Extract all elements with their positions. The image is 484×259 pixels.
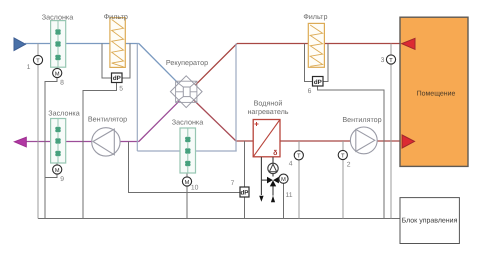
- svg-text:2: 2: [347, 162, 351, 169]
- svg-text:Заслонка: Заслонка: [172, 118, 203, 127]
- svg-text:6: 6: [308, 88, 312, 95]
- svg-text:dP: dP: [113, 75, 121, 82]
- svg-text:T: T: [389, 58, 393, 64]
- svg-text:M: M: [281, 177, 286, 183]
- svg-text:7: 7: [231, 180, 235, 187]
- svg-text:Вентилятор: Вентилятор: [88, 115, 127, 124]
- svg-text:δ: δ: [273, 149, 277, 157]
- svg-text:Блок управления: Блок управления: [402, 218, 458, 225]
- svg-text:M: M: [55, 71, 60, 77]
- svg-text:11: 11: [285, 192, 292, 199]
- svg-text:3: 3: [381, 57, 385, 64]
- svg-text:1: 1: [27, 64, 31, 71]
- svg-text:T: T: [36, 58, 40, 64]
- svg-text:Фильтр: Фильтр: [303, 12, 327, 21]
- svg-text:Заслонка: Заслонка: [48, 109, 79, 118]
- svg-text:dP: dP: [241, 190, 249, 197]
- svg-text:4: 4: [289, 160, 293, 167]
- svg-text:T: T: [341, 153, 345, 159]
- svg-text:dP: dP: [314, 79, 322, 86]
- svg-text:M: M: [55, 168, 60, 174]
- svg-text:M: M: [185, 180, 190, 186]
- svg-text:8: 8: [60, 80, 64, 87]
- svg-text:9: 9: [60, 176, 64, 183]
- svg-text:10: 10: [191, 184, 199, 191]
- svg-text:Фильтр: Фильтр: [104, 12, 128, 21]
- svg-text:Вентилятор: Вентилятор: [342, 115, 381, 124]
- svg-text:5: 5: [119, 85, 123, 92]
- svg-text:нагреватель: нагреватель: [247, 107, 288, 116]
- svg-text:Заслонка: Заслонка: [42, 13, 73, 22]
- svg-text:Рекуператор: Рекуператор: [166, 58, 208, 67]
- svg-text:Помещение: Помещение: [417, 91, 456, 98]
- svg-text:T: T: [297, 154, 301, 160]
